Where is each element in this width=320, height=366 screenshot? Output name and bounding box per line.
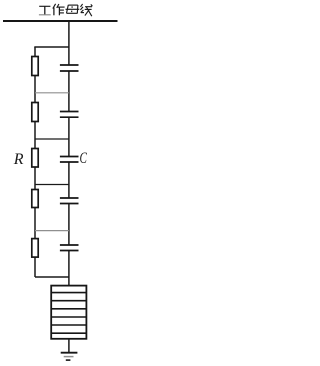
svg-text:C: C <box>80 150 88 167</box>
svg-text:R: R <box>13 151 24 168</box>
